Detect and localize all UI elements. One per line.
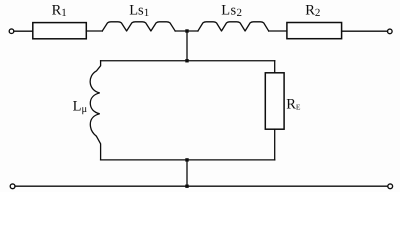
svg-text:R2: R2	[305, 3, 320, 20]
terminal top-right	[388, 29, 393, 34]
inductor Lmu	[90, 61, 100, 160]
wire	[15, 185, 388, 187]
node junction loop-top	[185, 59, 188, 62]
svg-text:Lμ: Lμ	[73, 98, 88, 115]
wire	[14, 30, 33, 32]
wire	[186, 160, 188, 186]
svg-text:Ls2: Ls2	[221, 3, 242, 20]
terminal top-left	[9, 29, 14, 34]
svg-text:RE: RE	[286, 96, 301, 112]
inductor Ls1	[102, 22, 175, 31]
wire	[274, 129, 276, 160]
node junction top	[185, 29, 188, 32]
terminal bottom-right	[388, 184, 393, 189]
resistor RE	[265, 73, 284, 129]
wire	[101, 159, 275, 161]
wire	[86, 30, 102, 32]
resistor R1	[33, 23, 87, 39]
inductor Ls2	[198, 22, 269, 31]
resistor R2	[287, 23, 342, 39]
wire	[175, 30, 198, 32]
svg-text:Ls1: Ls1	[129, 3, 149, 20]
wire	[101, 60, 275, 62]
svg-text:R1: R1	[52, 3, 67, 20]
wire	[269, 30, 287, 32]
node junction loop-bottom	[185, 158, 188, 161]
wire	[186, 31, 188, 61]
node junction bottom-rail	[185, 185, 188, 188]
wire	[274, 61, 276, 73]
terminal bottom-left	[10, 184, 15, 189]
wire	[342, 30, 388, 32]
